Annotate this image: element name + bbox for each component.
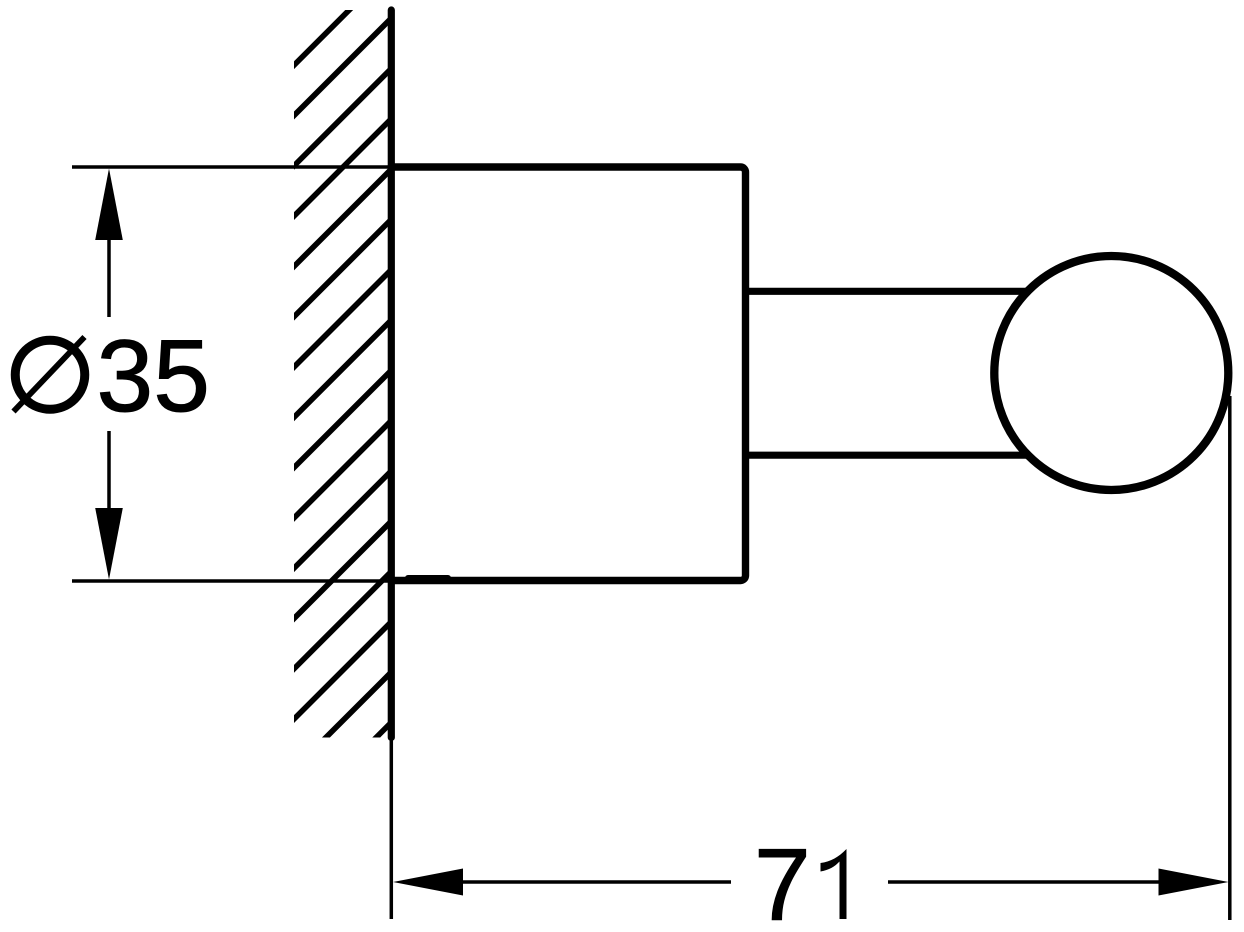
svg-text:7: 7: [754, 828, 811, 932]
stem top line: [745, 288, 1035, 295]
stem bottom line: [745, 452, 1035, 459]
dimension extension line top (d35): [72, 165, 391, 169]
wall line: [388, 10, 395, 738]
71 dim arrow left: [393, 869, 463, 896]
d35 arrow down: [95, 508, 123, 580]
dimension extension line bottom (d35): [72, 579, 391, 583]
71 dim line right segment: [888, 880, 1159, 884]
wall hatching: [289, 0, 392, 825]
dimension extension line right (71): [1228, 396, 1232, 920]
dimension extension line left (71): [390, 738, 394, 920]
71 dim line left segment: [462, 880, 731, 884]
svg-text:35: 35: [97, 319, 210, 433]
body bottom seam: [408, 575, 448, 581]
label 71: [754, 828, 847, 932]
hook body outline: [391, 167, 746, 581]
d35 arrow down shaft: [107, 431, 111, 509]
knob ball: [994, 256, 1228, 490]
label Ø 35: [14, 319, 210, 433]
71 dim arrow right: [1159, 869, 1229, 896]
d35 arrow up shaft: [107, 239, 111, 317]
d35 arrow up: [95, 169, 123, 241]
